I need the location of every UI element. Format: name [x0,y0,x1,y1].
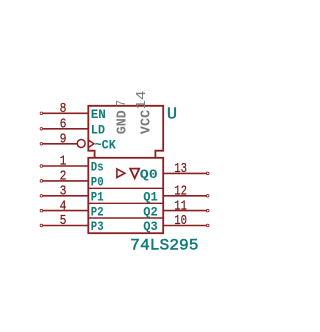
svg-text:74LS295: 74LS295 [130,237,198,255]
pin 3 P1 wire [40,195,88,198]
svg-text:7: 7 [114,100,130,107]
pin 13 Q0 wire [163,172,209,175]
pin 11 Q2 wire [163,209,209,212]
svg-text:9: 9 [60,132,67,148]
svg-text:P0: P0 [91,175,104,190]
svg-text:EN: EN [91,107,106,122]
svg-text:GND: GND [116,110,131,134]
svg-text:P2: P2 [91,204,104,219]
three-state symbol [130,169,139,179]
svg-text:14: 14 [134,91,150,110]
svg-text:2: 2 [60,169,67,185]
svg-text:Q0: Q0 [140,167,158,182]
pin 10 Q3 wire [163,224,209,227]
pin 9 inversion bubble [77,140,85,148]
svg-text:Q2: Q2 [143,204,158,219]
pin 9 clock edge symbol [88,140,94,148]
svg-text:~CK: ~CK [95,138,116,153]
svg-text:10: 10 [174,213,187,229]
svg-text:6: 6 [60,117,67,133]
pin 4 P2 wire [40,209,88,212]
pin 2 P0 wire [40,180,88,183]
pin 6 LD wire [40,128,88,131]
svg-text:U: U [167,105,177,124]
svg-text:LD: LD [91,123,105,138]
svg-text:VCC: VCC [139,110,154,135]
IC U 74LS295 control block body [88,106,163,158]
svg-text:1: 1 [60,154,67,170]
svg-text:Q3: Q3 [143,219,158,234]
svg-text:3: 3 [60,184,67,200]
divider line row P2/P3 [88,217,163,219]
svg-text:4: 4 [60,198,67,214]
IC U 74LS295 main block body [88,158,163,233]
shift-right symbol [117,169,125,178]
svg-text:Ds: Ds [91,160,104,175]
divider line row P0/P1 [88,187,163,189]
pin 1 Ds wire [40,165,88,168]
svg-text:8: 8 [60,101,67,117]
svg-text:12: 12 [174,184,187,200]
svg-text:P3: P3 [91,219,104,234]
divider line row P1/P2 [88,202,163,204]
pin 12 Q1 wire [163,195,209,198]
svg-text:13: 13 [174,161,187,177]
pin 5 P3 wire [40,224,88,227]
svg-text:Q1: Q1 [143,190,158,205]
svg-text:P1: P1 [91,190,104,205]
svg-text:11: 11 [174,198,187,214]
pin 9 CK wire [40,143,77,146]
svg-text:5: 5 [60,213,67,229]
pin 8 EN wire [40,112,88,115]
